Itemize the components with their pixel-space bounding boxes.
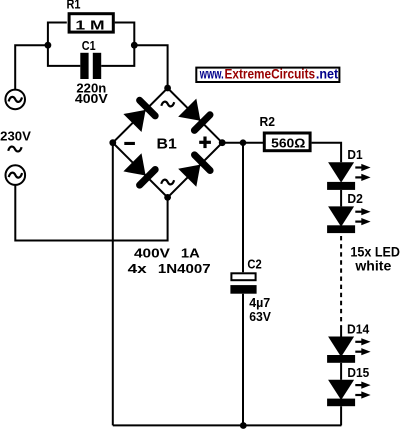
svg-text:63V: 63V [249, 309, 271, 324]
svg-text:4x: 4x [128, 261, 148, 276]
svg-text:230V: 230V [0, 129, 31, 144]
svg-text:4µ7: 4µ7 [249, 295, 270, 310]
svg-text:1 M: 1 M [75, 17, 104, 32]
svg-text:D15: D15 [347, 365, 369, 380]
svg-text:1N4007: 1N4007 [158, 261, 211, 276]
svg-text:white: white [354, 259, 391, 274]
svg-text:.net: .net [316, 67, 339, 83]
svg-text:D2: D2 [347, 191, 363, 206]
svg-text:B1: B1 [157, 135, 177, 152]
svg-text:D14: D14 [347, 321, 370, 336]
svg-text:R1: R1 [67, 0, 81, 12]
svg-text:560Ω: 560Ω [271, 135, 305, 150]
svg-text:15x LED: 15x LED [350, 245, 400, 260]
svg-text:1A: 1A [181, 245, 201, 260]
svg-text:C2: C2 [247, 257, 261, 272]
svg-text:R2: R2 [260, 114, 276, 129]
svg-text:D1: D1 [347, 147, 362, 162]
svg-text:400V: 400V [134, 245, 170, 260]
svg-text:C1: C1 [82, 38, 96, 53]
svg-text:www.: www. [199, 67, 224, 83]
svg-text:400V: 400V [75, 91, 108, 106]
svg-text:ExtremeCircuits: ExtremeCircuits [225, 67, 316, 83]
